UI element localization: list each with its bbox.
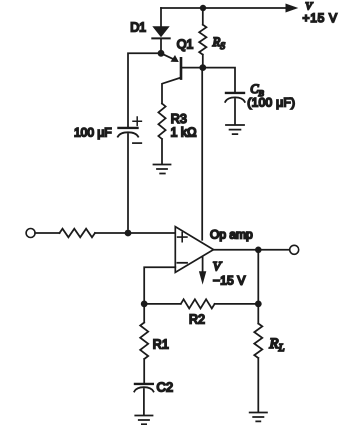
terminal output circle [290,245,299,254]
svg-text:C2: C2 [157,380,174,395]
resistor RL [254,304,262,412]
wire to + input [95,232,175,234]
resistor R2 [144,299,258,308]
wire - input feedback [144,267,175,301]
ground (CB) [226,125,244,134]
svg-text:V: V [213,259,223,274]
capacitor C2 [134,384,153,415]
wire op-amp V+ supply (base node down to op amp) [201,68,203,240]
node junction + input / cap [125,230,132,237]
wire input [35,232,59,234]
arrow op-amp V- supply [199,257,206,285]
resistor RS [199,8,206,68]
capacitor 100uF (electrolytic) [118,128,138,229]
transistor Q1 [161,53,203,103]
terminal input circle [26,229,35,238]
node junction D1/emitter/cap [158,50,165,57]
label + polarity [133,117,141,125]
svg-text:(100 μF): (100 μF) [247,96,295,110]
svg-text:D1: D1 [130,21,146,35]
resistor R1 [140,304,148,383]
svg-text:R3: R3 [171,112,187,126]
ground (R3) [154,165,171,174]
diode D1 [152,26,169,37]
arrow head +15V supply [286,4,299,13]
node junction feedback right [255,301,262,308]
ground (C2) [135,416,152,425]
wire D1 node to filter cap [128,53,161,126]
resistor (input, unlabeled) [60,229,96,238]
svg-text:−15 V: −15 V [213,273,246,287]
resistor R3 [158,104,165,165]
node junction base/RS/CB [199,64,206,71]
svg-text:1 kΩ: 1 kΩ [171,126,197,140]
svg-text:Q1: Q1 [177,37,194,51]
wire output down [257,250,259,304]
svg-text:RL: RL [268,336,284,354]
svg-text:R2: R2 [189,313,205,327]
node junction output [255,247,262,254]
wire base node to CB [203,68,235,92]
op-amp U1 [175,227,213,273]
wire D1 anode [160,8,162,26]
svg-text:+15 V: +15 V [303,11,338,25]
ground (RL) [250,413,267,422]
svg-text:100 μF: 100 μF [74,126,112,140]
node junction top rail / RS [200,5,206,11]
capacitor CB [225,93,245,125]
svg-text:RS: RS [212,35,226,52]
wire +15V top rail [161,7,287,9]
wire D1 cathode [160,38,162,53]
label - polarity [133,142,141,144]
svg-text:R1: R1 [153,338,169,352]
svg-text:Op amp: Op amp [210,228,253,242]
node junction feedback left [141,301,148,308]
wire output [214,249,290,251]
